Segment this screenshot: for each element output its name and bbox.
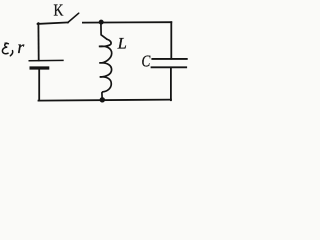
label ε (script EMF symbol): [2, 43, 8, 53]
wire: top-right horizontal segment from switch to top-right corner: [83, 21, 171, 23]
node: top junction dot: [99, 20, 104, 25]
node: bottom junction dot: [100, 97, 105, 102]
capacitor C : top plate: [151, 58, 187, 60]
svg-text:r: r: [17, 37, 25, 57]
inductor L coil (four right-bulging loops): [99, 39, 112, 99]
wire: stub from top junction down to inductor: [101, 22, 107, 39]
wire: left vertical segment (top corner down to battery): [37, 23, 39, 60]
switch K blade (open, diagonal): [68, 13, 79, 22]
svg-text:C: C: [142, 52, 152, 71]
label ε top tick: [5, 42, 7, 44]
svg-text:K: K: [54, 1, 64, 20]
wire: right vertical segment (top corner down to capacitor): [170, 22, 172, 59]
battery cell ε,r : long thin positive plate: [29, 59, 64, 61]
wire: left vertical segment (battery down to bottom corner): [38, 69, 40, 100]
capacitor C : bottom plate: [151, 66, 188, 68]
label comma after ε: [10, 51, 12, 56]
battery cell ε,r : short thick negative plate: [30, 66, 50, 69]
wire: top-left horizontal segment from left corner to switch: [38, 22, 68, 24]
svg-text:L: L: [117, 35, 127, 52]
wire: bottom horizontal segment: [39, 100, 171, 101]
wire: right vertical segment (capacitor down to bottom corner): [170, 67, 172, 100]
